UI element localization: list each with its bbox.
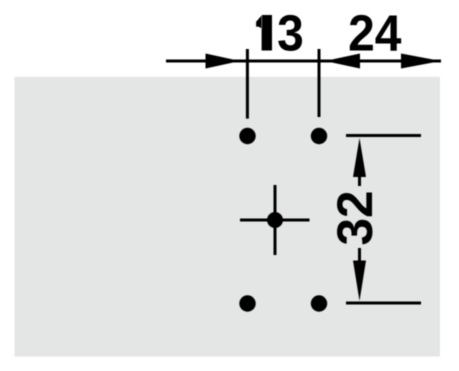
extension line 1 (left hole column) [246, 49, 249, 119]
arrowhead pointing up [353, 138, 366, 177]
hole bottom-left [239, 295, 255, 311]
svg-text:3: 3 [277, 5, 304, 62]
arrowhead pointing down [353, 261, 366, 302]
arrowhead pointing right at panel right edge [401, 54, 441, 69]
extension line 2 (right hole column) [318, 49, 321, 117]
dimension line vertical upper segment [358, 174, 361, 186]
extension line top (32 dimension) [346, 134, 421, 137]
dimension line (top, horizontal) [166, 60, 441, 63]
crosshair horizontal line [240, 219, 310, 222]
hole top-left [239, 128, 255, 144]
dimension text 13 : digit 1 (custom footless) [256, 15, 272, 51]
hole bottom-right [311, 295, 327, 311]
svg-text:24: 24 [348, 5, 402, 62]
hole top-right [311, 128, 327, 144]
panel (grey workpiece) [15, 77, 441, 357]
crosshair vertical line [274, 185, 277, 255]
dimension line vertical lower segment [358, 248, 361, 261]
crosshair center dot [267, 212, 283, 228]
svg-text:32: 32 [327, 190, 383, 245]
arrowhead pointing right at extension line 1 [206, 54, 241, 69]
arrowhead pointing left at extension line 2 [325, 54, 360, 69]
extension line bottom (32 dimension) [346, 302, 421, 305]
